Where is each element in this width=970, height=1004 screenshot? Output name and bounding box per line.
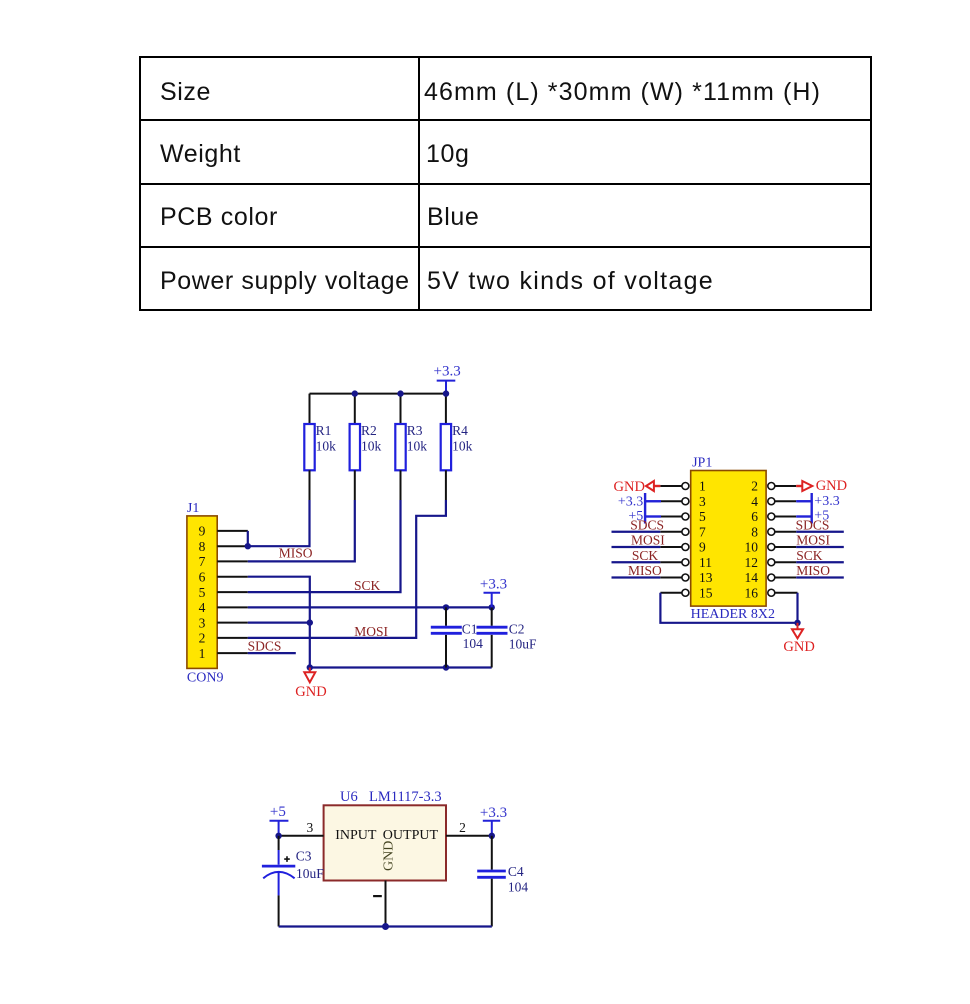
svg-text:GND: GND	[295, 684, 326, 700]
node rail-R3 junction	[397, 390, 403, 396]
svg-text:CON9: CON9	[187, 670, 224, 685]
resistor R1	[304, 423, 336, 471]
svg-text:10k: 10k	[316, 438, 337, 453]
svg-text:12: 12	[745, 555, 759, 570]
wire J1 pin2 stub	[217, 637, 248, 639]
svg-text:1: 1	[199, 646, 206, 661]
svg-text:+5: +5	[270, 804, 286, 820]
svg-text:GND: GND	[816, 478, 847, 494]
node rail-C1 junction	[443, 664, 449, 670]
svg-text:11: 11	[699, 555, 712, 570]
svg-text:C4: C4	[508, 864, 524, 879]
resistor R2	[350, 423, 382, 471]
wire J1 pin8 stub	[217, 545, 248, 547]
svg-text:3: 3	[699, 494, 706, 509]
svg-text:8: 8	[751, 524, 758, 539]
svg-text:SDCS: SDCS	[796, 517, 830, 532]
svg-text:5: 5	[199, 585, 206, 600]
wire J1 pin1 stub	[217, 652, 248, 654]
svg-text:104: 104	[463, 636, 484, 651]
wire net MOSI right	[796, 546, 844, 548]
regulator U6 LM1117-3.3	[324, 789, 446, 896]
svg-text:MISO: MISO	[796, 563, 830, 578]
power symbol +3.3 (above C2)	[480, 577, 507, 608]
svg-text:GND: GND	[783, 639, 814, 655]
svg-text:C2: C2	[509, 621, 525, 636]
node rail-GND junction	[307, 664, 313, 670]
wire net SCK left	[612, 561, 661, 563]
svg-text:LM1117-3.3: LM1117-3.3	[369, 789, 442, 805]
wire JP1 pin10 stub	[775, 546, 797, 548]
wire pin15 to ground	[660, 593, 797, 623]
ground symbol GND2	[783, 623, 814, 655]
wire net SDCS left	[612, 531, 661, 533]
svg-text:14: 14	[745, 570, 759, 585]
svg-text:+3.3: +3.3	[814, 494, 839, 509]
svg-text:HEADER 8X2: HEADER 8X2	[691, 607, 775, 622]
node rail-R4 junction	[443, 390, 449, 396]
svg-text:R1: R1	[316, 423, 332, 438]
power symbol +5 (U6 input)	[270, 804, 289, 836]
wire JP1 pin16 stub	[775, 592, 798, 594]
wire R2 bottom stub	[354, 470, 356, 500]
svg-text:16: 16	[745, 585, 759, 600]
svg-text:INPUT: INPUT	[335, 828, 377, 843]
ground symbol GND1	[295, 668, 326, 700]
capacitor C3 polarized	[262, 836, 324, 927]
svg-text:2: 2	[199, 631, 206, 646]
capacitor C4	[477, 836, 528, 927]
svg-text:9: 9	[199, 524, 206, 539]
wire J1 pin7 stub	[217, 560, 248, 562]
wire pin3 to GND vertical	[248, 621, 310, 623]
svg-text:10: 10	[745, 540, 759, 555]
node input-C3 junction	[275, 833, 281, 839]
svg-text:C3: C3	[296, 848, 312, 863]
wire +3.3 top rail	[310, 393, 447, 395]
wire JP1 pin4 stub	[775, 500, 797, 502]
wire rail to R4 top	[445, 394, 447, 424]
node pin8-pin9 junction	[245, 543, 251, 549]
connector JP1 HEADER 8X2	[691, 456, 775, 622]
port GND left arrow	[614, 479, 661, 495]
svg-text:+3.3: +3.3	[434, 364, 461, 380]
power +3.3 right bar	[796, 493, 840, 524]
wire U6 output to +3.3	[446, 835, 492, 837]
connector J1 CON9	[187, 501, 224, 685]
svg-text:R2: R2	[361, 423, 377, 438]
svg-text:+3.3: +3.3	[480, 805, 507, 821]
wire net SCK right	[796, 561, 844, 563]
svg-text:MISO: MISO	[628, 563, 662, 578]
svg-text:MOSI: MOSI	[354, 624, 388, 639]
wire U6 GND pin down	[385, 881, 387, 927]
svg-text:SCK: SCK	[796, 548, 823, 563]
node pin3-GND junction	[307, 619, 313, 625]
svg-text:MOSI: MOSI	[631, 533, 665, 548]
power +5 right bar	[796, 509, 829, 524]
wire JP1 pin1 stub	[660, 485, 682, 487]
wire JP1 pin8 stub	[775, 531, 797, 533]
wire +5 to U6 input	[279, 835, 324, 837]
wire net MISO left	[612, 576, 661, 578]
power +5 left bar	[628, 509, 661, 524]
wire JP1 pin2 stub	[775, 485, 797, 487]
wire JP1 pin6 stub	[775, 516, 797, 518]
svg-text:7: 7	[699, 524, 706, 539]
wire ground rail U6	[279, 925, 492, 927]
wire JP1 pin7 stub	[660, 531, 682, 533]
wire J1 pin5 stub	[217, 591, 248, 593]
svg-text:13: 13	[699, 570, 713, 585]
wire J1 pin6 stub	[217, 576, 248, 578]
svg-text:2: 2	[751, 479, 758, 494]
power +3.3 left bar	[618, 493, 661, 524]
spec table	[139, 56, 872, 58]
wire ground rail bottom	[310, 666, 492, 668]
wire rail to R2 top	[354, 394, 356, 424]
svg-text:7: 7	[199, 554, 206, 569]
wire R3 bottom stub	[400, 470, 402, 500]
wire pin8 to R1 bottom	[248, 500, 310, 546]
wire net MISO right	[796, 576, 844, 578]
wire SCK net pin5 to R3	[248, 500, 401, 592]
wire JP1 pin9 stub	[660, 546, 682, 548]
node pin4-C1 junction	[443, 604, 449, 610]
svg-text:J1: J1	[187, 501, 199, 516]
port GND right arrow	[796, 478, 847, 494]
wire JP1 pin14 stub	[775, 577, 797, 579]
wire rail to R1 top	[309, 394, 311, 424]
wire JP1 pin15 stub	[660, 592, 682, 594]
wire rail to R3 top	[400, 394, 402, 424]
pin circles JP1 left	[682, 483, 689, 597]
capacitor C2	[477, 607, 537, 667]
svg-text:104: 104	[508, 880, 529, 895]
svg-text:MOSI: MOSI	[796, 533, 830, 548]
svg-text:+3.3: +3.3	[480, 577, 507, 593]
svg-text:15: 15	[699, 585, 713, 600]
svg-text:GND: GND	[382, 841, 397, 871]
svg-text:JP1: JP1	[692, 456, 712, 471]
wire R1 bottom stub	[309, 470, 311, 500]
svg-text:U6: U6	[340, 789, 358, 805]
wire JP1 pin3 stub	[661, 500, 682, 502]
svg-text:GND: GND	[614, 479, 645, 495]
svg-text:10uF: 10uF	[509, 637, 537, 652]
svg-text:4: 4	[751, 494, 758, 509]
node pin4-C2 junction	[489, 604, 495, 610]
svg-text:9: 9	[699, 540, 706, 555]
wire J1 pin3 stub	[217, 622, 248, 624]
wire J1 pin4 stub	[217, 606, 248, 608]
node rail-R2 junction	[352, 390, 358, 396]
svg-text:MISO: MISO	[279, 546, 313, 561]
wire JP1 pin11 stub	[660, 561, 682, 563]
svg-text:10k: 10k	[452, 438, 473, 453]
capacitor C1	[431, 607, 483, 667]
svg-text:SCK: SCK	[632, 548, 659, 563]
svg-text:+3.3: +3.3	[618, 494, 643, 509]
wire R4 bottom stub	[445, 470, 447, 500]
svg-text:3: 3	[199, 615, 206, 630]
wire SDCS net pin1	[248, 652, 296, 654]
svg-text:1: 1	[699, 479, 706, 494]
resistor R4	[441, 423, 473, 471]
svg-text:10uF: 10uF	[296, 866, 324, 881]
svg-text:SCK: SCK	[354, 578, 381, 593]
svg-text:C1: C1	[462, 621, 478, 636]
power symbol +3.3 (top rail)	[434, 364, 461, 394]
svg-text:10k: 10k	[361, 438, 382, 453]
wire JP1 pin5 stub	[661, 516, 682, 518]
resistor R3	[395, 423, 427, 471]
node pin15-pin16 ground junction	[794, 620, 800, 626]
svg-text:3: 3	[307, 820, 314, 835]
wire net MOSI left	[612, 546, 661, 548]
wire GND net pin6 down	[248, 577, 310, 668]
svg-text:2: 2	[459, 820, 466, 835]
svg-text:6: 6	[199, 569, 206, 584]
svg-text:SDCS: SDCS	[630, 517, 664, 532]
power symbol +3.3 (U6 output)	[480, 805, 507, 836]
svg-text:SDCS: SDCS	[248, 638, 282, 653]
node output-C4 junction	[489, 833, 495, 839]
wire MISO net pin7 to R2	[248, 500, 355, 561]
svg-text:5: 5	[699, 509, 706, 524]
svg-text:10k: 10k	[407, 438, 428, 453]
svg-text:6: 6	[751, 509, 758, 524]
svg-text:4: 4	[199, 600, 206, 615]
wire pin16 down to ground	[796, 593, 798, 623]
svg-text:8: 8	[199, 539, 206, 554]
wire net SDCS right	[796, 531, 844, 533]
node U6 ground junction	[382, 923, 389, 930]
pin circles JP1 right	[768, 483, 775, 597]
wire J1 pin9 stub	[217, 530, 248, 532]
wire pin9 down to pin8 net	[247, 531, 249, 546]
svg-text:R4: R4	[452, 423, 468, 438]
wire +3.3 net pin4 to C1 C2	[248, 606, 492, 608]
svg-text:R3: R3	[407, 423, 423, 438]
wire JP1 pin13 stub	[660, 577, 682, 579]
wire JP1 pin12 stub	[775, 561, 797, 563]
wire MOSI net pin2 to R4	[248, 500, 446, 638]
